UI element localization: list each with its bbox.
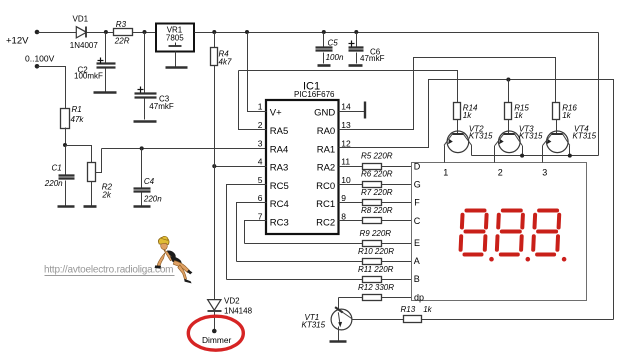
wire R5 to segment D xyxy=(382,166,412,168)
display digit pin numbers xyxy=(443,168,547,178)
svg-text:Dimmer: Dimmer xyxy=(202,335,232,345)
node R1 C1 R2 xyxy=(63,143,67,147)
resistor R4 4k7 xyxy=(211,33,232,67)
svg-text:R1: R1 xyxy=(72,105,82,114)
svg-text:22R: 22R xyxy=(114,36,130,45)
wire R7 to segment F xyxy=(382,202,412,204)
svg-text:R11 220R: R11 220R xyxy=(358,265,394,274)
svg-text:RA3: RA3 xyxy=(270,163,288,174)
transistor VT1 KT315 xyxy=(302,298,353,342)
wire R12 to segment dp xyxy=(382,297,412,299)
svg-text:1N4148: 1N4148 xyxy=(224,306,253,315)
svg-text:V+: V+ xyxy=(270,107,282,118)
terminal 0..100V xyxy=(35,64,40,69)
svg-text:14: 14 xyxy=(341,101,351,111)
svg-text:KT315: KT315 xyxy=(573,132,597,141)
node C4 tap xyxy=(140,146,144,150)
wire R1 to node xyxy=(65,128,67,146)
ground below VR1 xyxy=(175,52,177,67)
decimal points xyxy=(489,257,566,262)
diode VD2 1N4148 xyxy=(208,296,253,331)
svg-text:1k: 1k xyxy=(423,305,432,314)
wire RA5 pin2 riser xyxy=(239,71,267,130)
svg-text:G: G xyxy=(414,180,421,190)
svg-text:1k: 1k xyxy=(514,111,523,120)
wire terminal to VD1 xyxy=(38,32,77,34)
ground below R2 xyxy=(84,205,97,208)
resistor R1 47k xyxy=(61,105,85,129)
ground below C3 xyxy=(134,120,157,123)
terminal +12V xyxy=(35,30,40,35)
svg-text:3: 3 xyxy=(542,168,547,178)
svg-text:10: 10 xyxy=(341,175,351,185)
wire VT1 collector to R13 xyxy=(353,319,404,321)
svg-text:7: 7 xyxy=(258,211,263,221)
wire pin6 row to R10 xyxy=(237,261,363,263)
display module box xyxy=(412,163,587,301)
svg-text:100mkF: 100mkF xyxy=(74,71,103,80)
svg-text:R10 220R: R10 220R xyxy=(358,247,394,256)
svg-text:47mkF: 47mkF xyxy=(360,54,385,63)
wire R9 to segment E xyxy=(382,243,412,245)
dancer clipart xyxy=(155,236,193,283)
wire wiper to RA4 pin3 xyxy=(102,148,267,150)
transistor VT2 KT315 xyxy=(444,120,493,163)
svg-text:GND: GND xyxy=(314,107,335,118)
capacitor C4 220n xyxy=(134,149,163,206)
svg-text:RA2: RA2 xyxy=(317,163,335,174)
resistor R6 220R xyxy=(361,170,393,188)
ground below C4 xyxy=(134,205,151,208)
resistor R14 1k xyxy=(454,103,479,121)
svg-text:6: 6 xyxy=(258,193,263,203)
IC1 left pin names xyxy=(270,107,289,228)
capacitor C6 47mkF xyxy=(349,33,385,64)
wire RC3 pin7 drop xyxy=(245,221,267,244)
wire pin7 row to R9 xyxy=(245,243,363,245)
svg-text:9: 9 xyxy=(341,193,346,203)
resistor R7 220R xyxy=(361,188,393,206)
svg-text:47k: 47k xyxy=(71,115,85,124)
resistor R10 220R xyxy=(358,247,394,264)
svg-text:1N4007: 1N4007 xyxy=(70,41,99,50)
resistor R5 220R xyxy=(361,151,393,169)
display segment pin letters xyxy=(414,161,424,302)
svg-text:PIC16F676: PIC16F676 xyxy=(294,90,335,99)
svg-text:4k7: 4k7 xyxy=(219,58,232,67)
transistor VT4 KT315 xyxy=(543,120,597,163)
svg-text:R5 220R: R5 220R xyxy=(361,151,393,160)
IC1 left pin numbers xyxy=(258,101,263,221)
wire VT1 base to R12 xyxy=(339,297,363,299)
wire pin5 row to R11 xyxy=(227,279,363,281)
svg-text:7805: 7805 xyxy=(166,33,184,42)
svg-text:VD1: VD1 xyxy=(73,15,89,24)
wire VD1 to R3 xyxy=(87,32,114,34)
ground below C6 xyxy=(349,64,363,67)
transistor VT3 KT315 xyxy=(495,120,544,163)
svg-text:dp: dp xyxy=(414,292,424,302)
svg-text:0..100V: 0..100V xyxy=(25,54,55,64)
svg-text:KT315: KT315 xyxy=(519,132,543,141)
ground below C5 xyxy=(318,64,331,67)
svg-text:R3: R3 xyxy=(116,20,127,29)
+5V rail xyxy=(195,32,599,34)
wire RA5 route to R14 xyxy=(239,71,458,103)
svg-text:1: 1 xyxy=(443,168,448,178)
resistor R12 330R xyxy=(358,283,394,300)
wire R11 to segment B xyxy=(382,279,412,281)
svg-text:100n: 100n xyxy=(326,53,344,62)
ground below C1 xyxy=(58,205,75,208)
svg-text:RA1: RA1 xyxy=(317,145,335,156)
wire RC0 pin10 to R6 xyxy=(339,184,363,186)
svg-text:1k: 1k xyxy=(562,111,571,120)
wire RC1 pin9 to R7 xyxy=(339,202,363,204)
svg-text:47mkF: 47mkF xyxy=(149,102,174,111)
resistor R9 220R xyxy=(360,229,392,246)
svg-text:B: B xyxy=(414,274,420,284)
svg-text:2: 2 xyxy=(258,120,263,130)
resistor R13 1k xyxy=(401,305,433,323)
resistor R11 220R xyxy=(358,265,394,282)
wire R2 bottom to ground xyxy=(91,182,93,206)
svg-text:2: 2 xyxy=(498,168,503,178)
capacitor C5 100n xyxy=(316,33,344,64)
svg-text:1: 1 xyxy=(258,101,263,111)
svg-text:RC2: RC2 xyxy=(316,217,335,228)
svg-text:RA5: RA5 xyxy=(270,126,288,137)
terminal Dimmer xyxy=(212,329,217,334)
svg-text:RC3: RC3 xyxy=(270,217,289,228)
capacitor C1 220n xyxy=(44,146,75,206)
+5V drop right side xyxy=(598,33,600,156)
ground below C2 xyxy=(94,91,117,94)
svg-text:RC5: RC5 xyxy=(270,181,289,192)
wire R3 to VR1 xyxy=(133,32,157,34)
svg-text:4: 4 xyxy=(258,157,263,167)
svg-text:F: F xyxy=(414,198,420,208)
wire RA2 pin11 to R5 xyxy=(339,166,363,168)
node V+ riser xyxy=(245,30,249,34)
svg-text:R6 220R: R6 220R xyxy=(361,170,393,179)
wire RA1 pin12 route xyxy=(339,80,614,320)
node RA3 divider xyxy=(212,164,216,168)
svg-text:KT315: KT315 xyxy=(469,132,493,141)
wire node to R2 top xyxy=(66,146,92,163)
ground at pin14 xyxy=(339,111,366,113)
svg-text:R8 220R: R8 220R xyxy=(361,206,393,215)
svg-text:VD2: VD2 xyxy=(224,296,240,305)
wire RC5 pin5 drop xyxy=(227,185,267,280)
svg-text:5: 5 xyxy=(258,175,263,185)
svg-text:E: E xyxy=(414,238,420,248)
diode VD1 1N4007 xyxy=(70,15,99,51)
resistor R16 1k xyxy=(553,103,578,121)
wire terminal to R1 xyxy=(38,67,66,109)
capacitor C3 47mkF xyxy=(135,33,174,120)
resistor R3 22R xyxy=(114,20,133,45)
svg-text:RA4: RA4 xyxy=(270,145,288,156)
wire R4 to VD2 vertical xyxy=(214,66,216,300)
trimmer R2 2k xyxy=(88,149,113,200)
wire R13 to right riser xyxy=(422,319,614,321)
svg-text:220n: 220n xyxy=(143,195,162,204)
wire V+ pin1 xyxy=(248,33,267,112)
svg-text:RC1: RC1 xyxy=(316,199,335,210)
svg-text:220n: 220n xyxy=(44,179,63,188)
op-amp IC1 PIC16F676 box xyxy=(266,81,339,235)
svg-text:1k: 1k xyxy=(463,111,472,120)
regulator VR1 7805 xyxy=(156,24,194,52)
svg-text:C4: C4 xyxy=(144,177,155,186)
svg-text:KT315: KT315 xyxy=(302,320,326,329)
svg-text:C: C xyxy=(414,216,421,226)
svg-text:R7 220R: R7 220R xyxy=(361,188,393,197)
Dimmer red ellipse xyxy=(188,316,243,350)
wire RA3 pin4 xyxy=(215,166,267,168)
node R4 top xyxy=(212,30,216,34)
wire R6 to segment G xyxy=(382,184,412,186)
resistor R8 220R xyxy=(361,206,393,224)
svg-text:R12 330R: R12 330R xyxy=(358,283,394,292)
node C5 xyxy=(322,30,326,34)
node C2 tap xyxy=(104,30,108,34)
svg-text:A: A xyxy=(414,256,420,266)
svg-text:R13: R13 xyxy=(401,305,416,314)
IC1 right pin numbers xyxy=(341,101,351,221)
node R15 tap xyxy=(506,78,510,82)
collector +5V rail xyxy=(472,155,599,157)
wire RC4 pin6 drop xyxy=(237,203,267,262)
wire R8 to segment C xyxy=(382,220,412,222)
svg-text:http://avtoelectro.radioliga.c: http://avtoelectro.radioliga.com xyxy=(44,265,174,276)
node C3 tap xyxy=(143,30,147,34)
resistor R15 1k xyxy=(505,80,530,121)
node VT3 collector xyxy=(520,154,524,158)
seven segment digits xyxy=(461,211,560,255)
svg-text:3: 3 xyxy=(258,139,263,149)
svg-text:11: 11 xyxy=(341,157,350,167)
svg-text:13: 13 xyxy=(341,120,351,130)
capacitor C2 100mkF xyxy=(74,33,116,92)
svg-text:C1: C1 xyxy=(52,164,62,173)
wire RA0 pin13 route xyxy=(339,58,556,130)
node VT4 collector xyxy=(568,154,572,158)
svg-text:D: D xyxy=(414,161,421,171)
ground below VT1 xyxy=(330,340,347,343)
wire RC2 pin8 to R8 xyxy=(339,220,363,222)
svg-text:+12V: +12V xyxy=(6,36,29,47)
svg-text:C5: C5 xyxy=(328,39,339,48)
svg-text:8: 8 xyxy=(341,211,346,221)
svg-text:RC4: RC4 xyxy=(270,199,289,210)
IC1 right pin names xyxy=(314,107,335,228)
svg-text:RC0: RC0 xyxy=(316,181,335,192)
svg-text:RA0: RA0 xyxy=(317,126,335,137)
svg-text:R9 220R: R9 220R xyxy=(360,229,392,238)
svg-text:2k: 2k xyxy=(101,191,111,200)
wire R10 to segment A xyxy=(382,261,412,263)
node C6 xyxy=(354,30,358,34)
